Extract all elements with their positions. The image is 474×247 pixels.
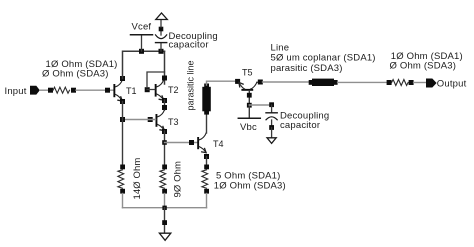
- parasitic line label: [186, 60, 196, 110]
- svg-text:T3: T3: [168, 117, 179, 127]
- R1 value label: [42, 59, 118, 80]
- node T1 emitter branch: [120, 117, 125, 122]
- wire R5 to output port: [414, 82, 426, 84]
- svg-text:Vbc: Vbc: [240, 122, 257, 133]
- transmission line TL2: [309, 79, 338, 86]
- node T1 emitter: [120, 99, 125, 104]
- node rail Vcef stub: [139, 49, 144, 54]
- node T5 base 2: [247, 103, 252, 108]
- resistor R1 10 Ohm (SDA1) 0 Ohm (SDA3): [53, 87, 70, 93]
- wire rail to decoupling capacitor C1: [160, 43, 162, 51]
- decoupling capacitor C2: [266, 111, 329, 132]
- output port: [426, 79, 437, 88]
- wire rail to ground: [164, 208, 166, 234]
- wire base node to capacitor C2: [249, 104, 271, 106]
- node rail capacitor stub: [159, 49, 164, 54]
- parasitic line TL1: [202, 84, 211, 115]
- svg-text:T2: T2: [168, 85, 179, 95]
- node T1 base pin: [105, 88, 110, 93]
- TL2 label: [271, 43, 376, 75]
- node C2 bottom: [269, 125, 274, 130]
- wire node to C2: [271, 105, 273, 113]
- wire parasitic line top to T5 emitter: [207, 81, 239, 85]
- node bottom rail center: [162, 206, 166, 210]
- wire R3 to bottom rail: [164, 194, 166, 208]
- svg-text:capacitor: capacitor: [169, 40, 209, 51]
- transistor T5: [239, 68, 257, 91]
- svg-text:capacitor: capacitor: [280, 120, 320, 131]
- node C2 top: [269, 102, 274, 107]
- wire T5 collector to Line: [263, 81, 310, 83]
- node T3 emitter: [162, 129, 167, 134]
- wire T1 collector to Vcef rail: [123, 51, 165, 78]
- node T3 base pin: [148, 117, 153, 122]
- ground (right, pointing down): [267, 138, 276, 144]
- ground (top, pointing up): [156, 13, 168, 20]
- Output label: [437, 78, 467, 89]
- node ground stub: [162, 220, 167, 225]
- node T4 emitter: [204, 154, 209, 159]
- Vcef terminal bar: [131, 22, 153, 35]
- svg-text:T5: T5: [242, 68, 253, 78]
- resistor R4 5 Ohm (SDA1) 10 Ohm (SDA3): [202, 165, 286, 194]
- svg-text:Output: Output: [437, 78, 467, 89]
- ground (bottom, pointing down): [159, 233, 170, 240]
- wire R2 to bottom rail: [122, 194, 124, 208]
- R5 value label: [390, 51, 463, 72]
- wire T1 emitter to T3 base: [123, 119, 156, 121]
- wire node to top ground: [160, 20, 162, 28]
- node T2 collector: [162, 76, 167, 81]
- node T2 base pin: [145, 87, 150, 92]
- svg-text:parasitic line: parasitic line: [186, 60, 196, 110]
- transistor T4: [197, 133, 223, 153]
- wire branch to T4 base: [165, 142, 198, 144]
- node input resistor right pin: [71, 88, 76, 93]
- resistor R5 10 Ohm (SDA1) 0 Ohm (SDA3): [392, 80, 409, 86]
- Vbc terminal bar: [238, 118, 260, 133]
- wire R4 to bottom rail: [206, 194, 208, 208]
- wire capacitor C1 to ground: [160, 29, 162, 35]
- node T3 collector: [162, 105, 167, 110]
- svg-text:1Ø Ohm (SDA3): 1Ø Ohm (SDA3): [214, 181, 286, 192]
- node R5 left pin: [387, 80, 392, 85]
- node T2 emitter: [162, 98, 167, 103]
- wire Line to R5: [338, 81, 389, 83]
- node T5 emitter pin: [235, 79, 240, 84]
- svg-text:Input: Input: [5, 86, 27, 97]
- node C1 top: [159, 27, 164, 32]
- node T5 base 1: [247, 93, 252, 98]
- wire R1 to T1 base: [76, 89, 114, 91]
- wire C2 to ground node: [271, 120, 273, 128]
- wire T4 collector to parasitic line: [206, 112, 208, 133]
- wire base node to Vbc bar: [248, 105, 250, 118]
- node T1 collector: [120, 76, 125, 81]
- transistor T3: [156, 110, 179, 131]
- svg-text:Ø Ohm (SDA3): Ø Ohm (SDA3): [42, 69, 109, 80]
- wire T1 emitter down to R2: [122, 102, 124, 168]
- wire T4 emitter to R4: [206, 157, 208, 168]
- wire input port to R1: [40, 89, 51, 91]
- node input resistor left pin: [48, 88, 53, 93]
- resistor R3 90 Ohm: [160, 161, 184, 198]
- resistor R2 140 Ohm: [118, 158, 143, 200]
- input port: [30, 86, 40, 95]
- svg-text:T4: T4: [213, 139, 224, 149]
- wire Vcef stub: [141, 35, 143, 51]
- svg-text:Vcef: Vcef: [132, 22, 152, 33]
- node R5 right pin: [409, 80, 414, 85]
- transistor T1: [113, 80, 136, 101]
- svg-text:9Ø Ohm: 9Ø Ohm: [173, 161, 184, 198]
- wire T2 base to collector loop: [147, 72, 165, 90]
- svg-text:5Ø um coplanar (SDA1): 5Ø um coplanar (SDA1): [271, 53, 376, 64]
- bottom rail wire: [123, 207, 207, 209]
- svg-text:parasitic (SDA3): parasitic (SDA3): [271, 63, 343, 74]
- wire T5 collector to output pin: [257, 81, 260, 83]
- svg-text:14Ø Ohm: 14Ø Ohm: [132, 158, 143, 200]
- wire T5 base down: [248, 91, 250, 105]
- wire T3 emitter down to R3: [164, 131, 166, 167]
- node T4 base branch: [162, 140, 167, 145]
- transistor T2: [155, 80, 179, 100]
- node T4 base pin: [189, 140, 194, 145]
- wire rail to T2 collector: [164, 51, 166, 84]
- wire node to ground (right): [271, 128, 273, 138]
- decoupling capacitor C1: [156, 31, 218, 51]
- Input label: [5, 86, 27, 97]
- node T5 collector pin: [258, 80, 263, 85]
- svg-text:Ø Ohm (SDA3): Ø Ohm (SDA3): [390, 61, 457, 72]
- wire T2 emitter to T3 collector: [164, 100, 166, 110]
- svg-text:T1: T1: [126, 86, 137, 96]
